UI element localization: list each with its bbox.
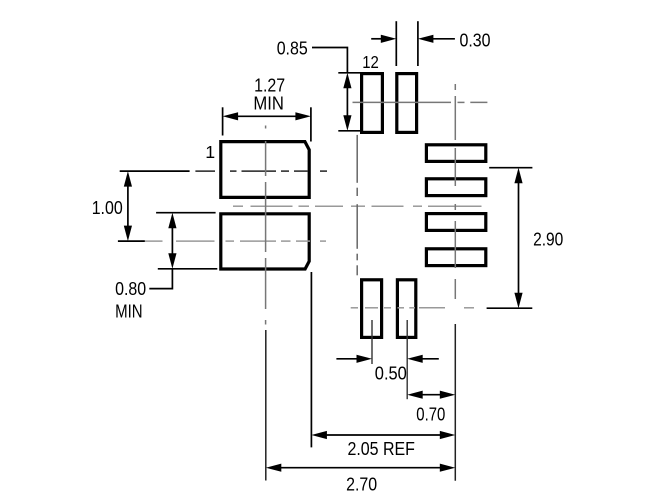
dimension 1.00: tick bottom (pad2 centerline) [118, 240, 145, 242]
dimension 0.80: extension ticks from pad 2 edges [156, 213, 217, 269]
centerline vertical left pads: lower solid portion to 2.70 [265, 330, 267, 481]
centerline horizontal of bottom pad row [351, 307, 474, 309]
dimension 1.27 MIN: text [253, 74, 285, 113]
dimension 1.00: tick top (pad1 centerline) [120, 170, 190, 172]
dimension 1.27: extension lines [223, 107, 311, 141]
svg-text:1: 1 [205, 142, 215, 162]
centerline vertical of bottom-right pad [406, 320, 408, 399]
right pad D (bottom of right column) [426, 249, 485, 266]
dimension 2.05 REF: text [347, 438, 415, 459]
dimension 2.90: text [533, 229, 563, 250]
centerline vertical of right pads column [454, 84, 456, 299]
centerline vertical of pattern center [356, 135, 358, 275]
label pin 12 [362, 52, 379, 72]
svg-text:2.90: 2.90 [533, 229, 563, 250]
dimension 0.50: left arrow [336, 355, 372, 363]
dimension 2.70: text [346, 474, 377, 495]
pad 1 (top-left large pad with chamfered top-right corner) [221, 142, 309, 198]
svg-text:MIN: MIN [253, 93, 284, 114]
dimension 2.90: vertical double arrow [514, 168, 522, 309]
dimension 0.30: left arrow [371, 35, 396, 43]
svg-text:0.70: 0.70 [416, 404, 445, 425]
right pad C [426, 214, 485, 231]
dimension 2.05 REF: line with outward arrows [311, 431, 455, 439]
svg-text:0.85: 0.85 [277, 37, 308, 58]
centerline vertical of left pads column [265, 126, 267, 325]
dimension 0.80: vertical double arrow [168, 213, 176, 269]
dimension 0.30: extension lines above top-right pad [396, 21, 418, 66]
dimension 0.85: ticks [338, 73, 360, 131]
dimension 0.30: right arrow [418, 35, 455, 43]
svg-text:0.50: 0.50 [375, 363, 407, 384]
centerline horizontal of top pad row [353, 101, 488, 103]
dimension 2.70: line with outward arrows [266, 464, 456, 472]
dimension 1.27: double arrow [223, 112, 311, 120]
dimension 2.90: ticks [487, 168, 533, 309]
dimension 0.85: vertical double arrow [343, 73, 351, 131]
centerline horizontal main [233, 205, 482, 207]
dimension 0.70: text [416, 404, 445, 425]
svg-text:MIN: MIN [115, 300, 143, 321]
right pad A (topmost of right column) [426, 145, 485, 162]
bottom-left vertical pad [362, 280, 382, 338]
dimension 1.00: text [92, 197, 123, 218]
centerline vertical right pads: lower solid portion to 2.70 [454, 324, 456, 481]
label pin 1 [205, 142, 215, 162]
svg-text:0.30: 0.30 [460, 29, 491, 50]
centerline vertical of bottom-left pad [371, 320, 373, 364]
dimension 0.50: text [375, 363, 407, 384]
svg-text:12: 12 [362, 52, 379, 72]
dimension 0.80: leader [149, 269, 172, 289]
dimension 0.50: right arrow [407, 355, 439, 363]
pad 11 (top row right vertical pad) [397, 74, 417, 133]
svg-text:2.05 REF: 2.05 REF [347, 438, 415, 459]
dimension 0.85: text [277, 37, 308, 58]
svg-text:1.00: 1.00 [92, 197, 123, 218]
svg-text:0.80: 0.80 [115, 278, 146, 299]
dimension 1.00: vertical double arrow [124, 171, 132, 241]
centerline horizontal of pad 2 [141, 240, 326, 242]
dimension 0.85: leader [312, 48, 347, 73]
extension line from pad 2 right edge down to 2.05 REF [310, 272, 312, 447]
dimension 0.30: text [460, 29, 491, 50]
right pad B [426, 179, 485, 196]
dimension 0.80 MIN: text [115, 278, 146, 321]
dimension 0.70: double arrow [407, 391, 455, 399]
pad 12 (top row left vertical pad) [362, 74, 383, 133]
bottom-right vertical pad [397, 280, 415, 338]
centerline horizontal of pad 1 [195, 170, 327, 172]
pad 2 (bottom-left large pad with chamfered bottom-right corner) [221, 214, 309, 269]
svg-text:2.70: 2.70 [346, 474, 377, 495]
